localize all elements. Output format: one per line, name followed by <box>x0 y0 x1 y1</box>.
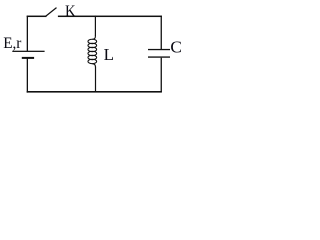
svg-text:E,r: E,r <box>3 35 22 52</box>
switch K blade <box>45 8 56 17</box>
svg-text:K: K <box>65 3 76 20</box>
wire right vertical upper (top-right corner to capacitor) <box>161 16 162 50</box>
battery E,r long plate <box>12 51 44 52</box>
capacitor C bottom plate <box>148 56 170 57</box>
wire inductor branch top (top wire down to coil) <box>95 16 96 37</box>
wire bottom horizontal <box>27 91 162 93</box>
wire right vertical lower (capacitor to bottom-right corner) <box>161 58 162 92</box>
wire top-right horizontal (switch to top-right corner) <box>58 16 162 17</box>
svg-text:C: C <box>170 38 181 57</box>
capacitor C top plate <box>148 49 170 50</box>
svg-text:L: L <box>104 45 114 64</box>
wire left vertical (battery short plate to bottom corner) <box>27 58 28 92</box>
inductor L coil <box>88 36 97 68</box>
wire inductor branch bottom (coil down to bottom wire) <box>95 67 96 93</box>
wire top-left horizontal (corner to switch) <box>27 16 47 17</box>
wire left vertical (top corner to battery long plate) <box>27 16 28 52</box>
battery E,r short plate <box>22 57 34 59</box>
